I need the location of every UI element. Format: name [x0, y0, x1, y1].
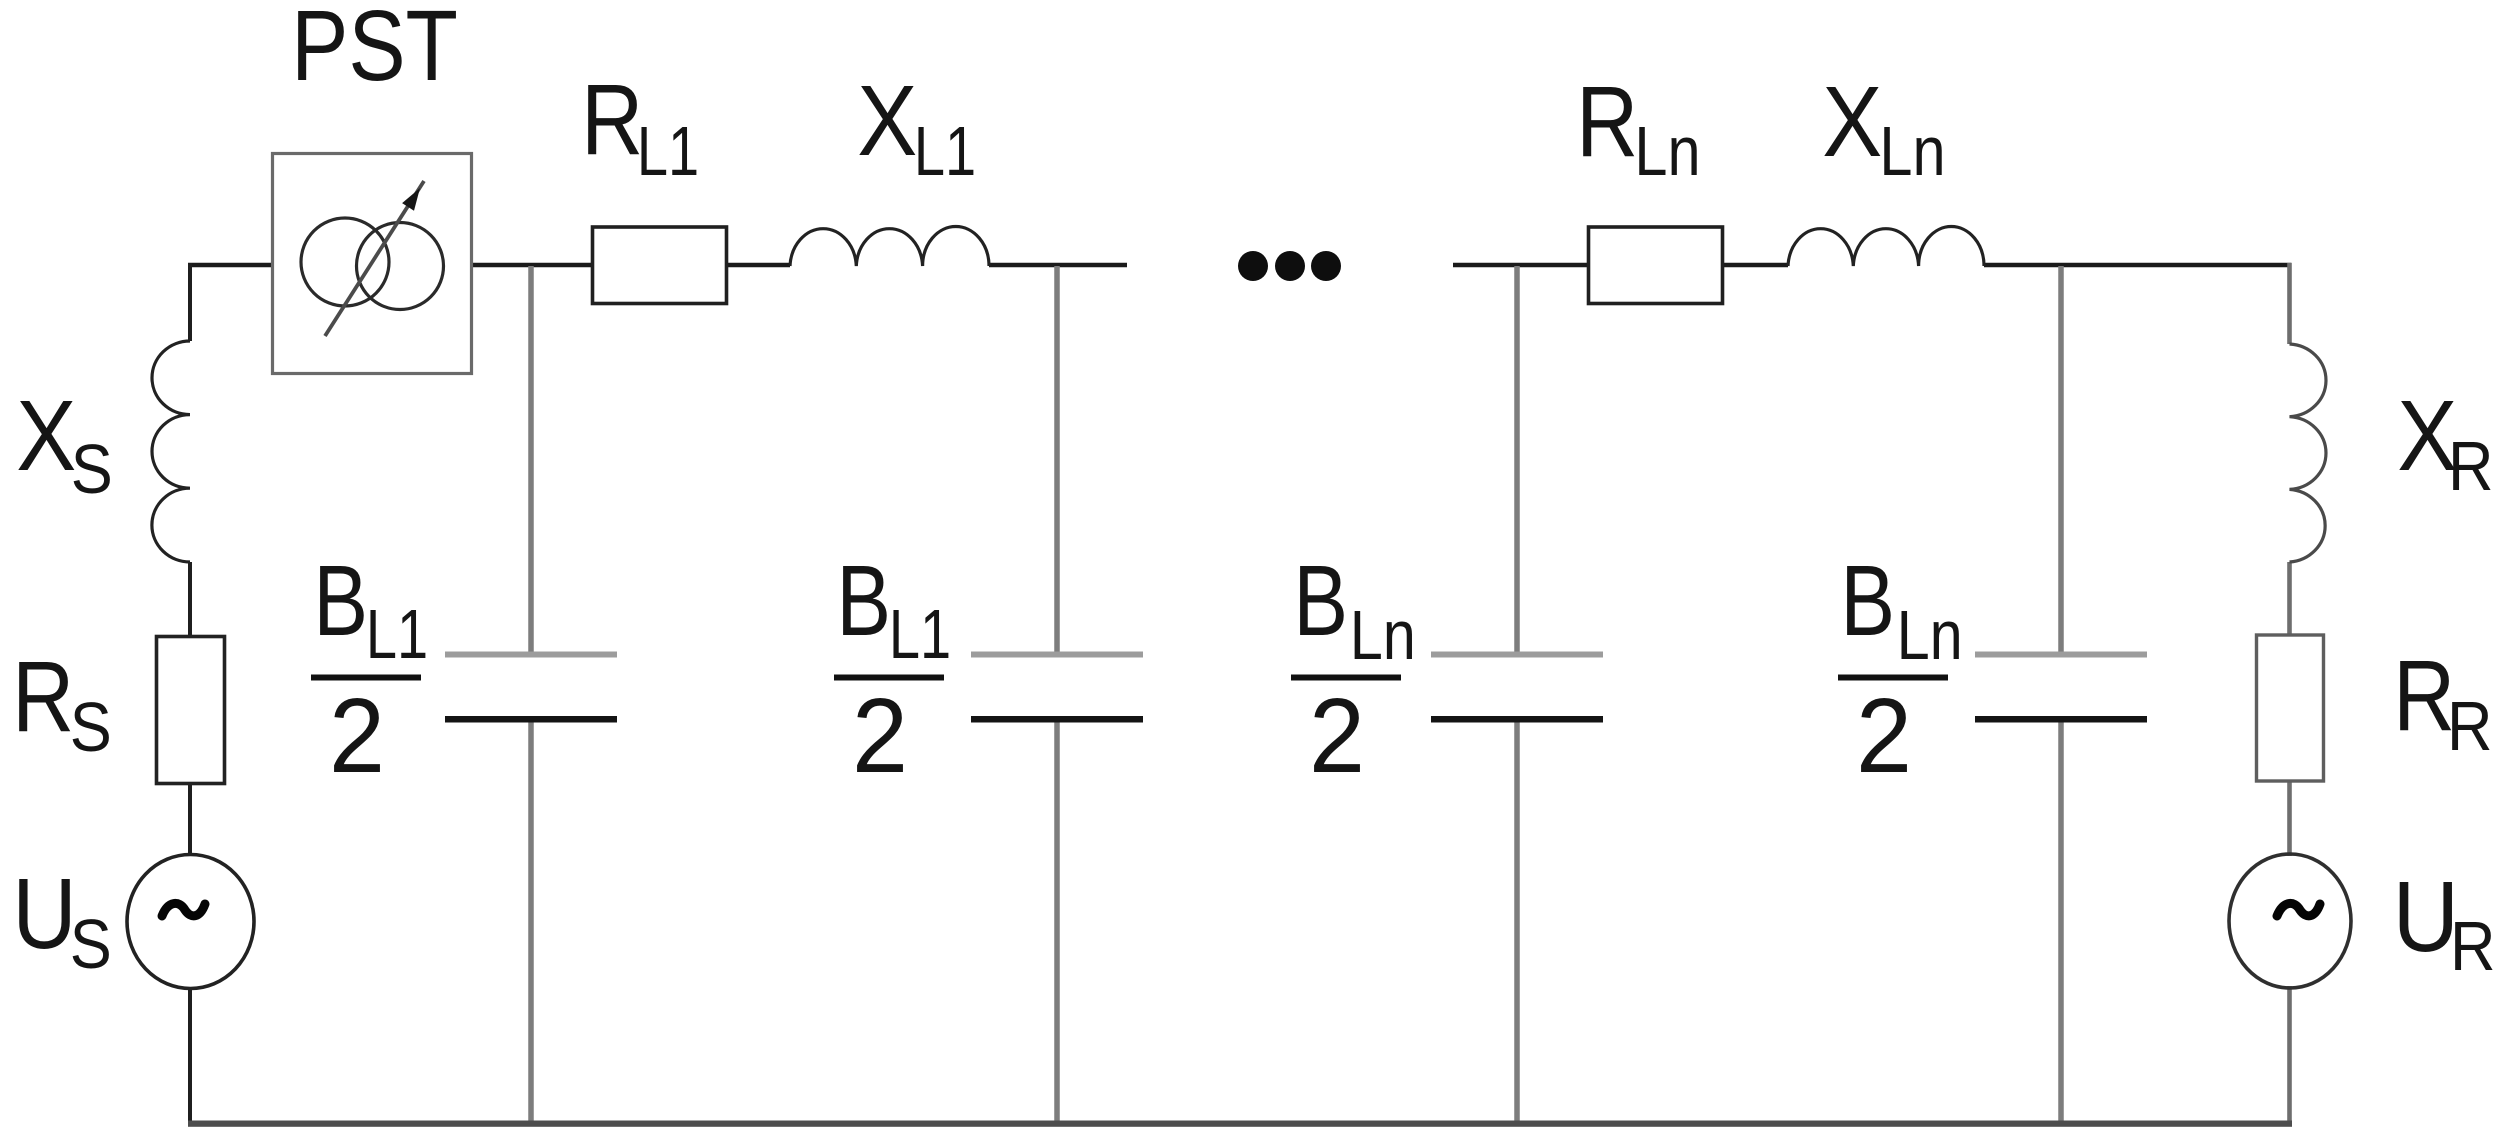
PST transformer box [273, 154, 472, 374]
svg-text:B: B [1293, 545, 1348, 657]
shunt capacitor C1 bottom plate [445, 716, 617, 723]
wire: dots gap to R_Ln [1453, 263, 1589, 268]
wire [2287, 986, 2292, 1124]
shunt capacitor C2 top plate [971, 652, 1143, 658]
label BL1/2 (cap 2) [834, 545, 951, 794]
svg-text:S: S [71, 431, 113, 509]
svg-text:Ln: Ln [1897, 595, 1963, 674]
inductor XL1 (3 arcs) [790, 226, 989, 266]
wire [188, 562, 192, 637]
svg-text:R: R [581, 64, 643, 176]
svg-text:PST: PST [291, 0, 458, 101]
svg-text:U: U [12, 858, 76, 970]
wire top bus segments [188, 263, 2292, 268]
svg-text:L1: L1 [889, 596, 951, 673]
svg-text:R: R [2450, 908, 2495, 986]
wire [188, 263, 192, 341]
svg-text:B: B [836, 545, 891, 657]
svg-text:B: B [313, 545, 368, 657]
shunt capacitor C1 stem lower [528, 723, 534, 1123]
svg-text:X: X [1822, 67, 1882, 178]
shunt capacitor C3 stem lower [1514, 723, 1520, 1123]
label RLn [1576, 66, 1700, 190]
wire [2287, 263, 2292, 344]
shunt capacitor C4 top plate [1975, 652, 2147, 658]
PST circle 1 [301, 218, 389, 306]
label RR [2393, 640, 2492, 766]
shunt capacitor C2 bottom plate [971, 716, 1143, 723]
wire: R_L1 to X_L1 [726, 263, 790, 268]
right receiving branch vertical wires [2287, 263, 2292, 1124]
svg-text:X: X [16, 381, 76, 492]
shunt capacitor C3 stem upper [1514, 266, 1520, 652]
wire: X_Ln to right corner [1984, 263, 2292, 268]
svg-text:2: 2 [852, 676, 908, 795]
svg-text:R: R [2393, 640, 2455, 752]
svg-text:L1: L1 [366, 596, 428, 673]
label BLn/2 (cap 3) [1291, 545, 1416, 794]
label XLn [1822, 67, 1945, 190]
wire: X_L1 to dots gap [989, 263, 1127, 268]
svg-text:L1: L1 [914, 113, 976, 190]
svg-text:X: X [857, 66, 917, 177]
shunt capacitor C2 stem upper [1054, 266, 1060, 652]
svg-text:S: S [70, 689, 112, 767]
wire [2287, 562, 2292, 635]
bottom return bus wire [188, 1121, 2292, 1127]
wire: PST to R_L1 [471, 263, 593, 268]
svg-text:L1: L1 [637, 113, 699, 190]
wire [2287, 781, 2292, 856]
svg-text:2: 2 [1856, 676, 1912, 795]
shunt capacitor C3 bottom plate [1431, 716, 1603, 723]
inductor XS (coil, bulge left) [152, 341, 190, 562]
svg-text:2: 2 [329, 676, 385, 795]
resistor RR [2257, 635, 2324, 781]
svg-text:S: S [70, 906, 112, 984]
svg-text:Ln: Ln [1350, 595, 1416, 674]
label XL1 [857, 66, 976, 191]
wire: left corner to PST [188, 263, 273, 268]
svg-text:Ln: Ln [1634, 111, 1700, 190]
node dots ... (ellipsis) [1238, 251, 1341, 281]
label UR [2393, 861, 2496, 985]
source UR (circle with ~) [2229, 854, 2351, 988]
shunt capacitor C1 top plate [445, 652, 617, 658]
label RS [12, 641, 112, 767]
shunt capacitor C2 stem lower [1054, 723, 1060, 1123]
label BL1/2 (cap 1) [311, 545, 428, 794]
PST arrow [325, 181, 424, 336]
svg-text:2: 2 [1309, 676, 1365, 795]
svg-text:R: R [2447, 688, 2492, 766]
inductor XLn (3 arcs) [1788, 226, 1984, 266]
svg-text:B: B [1840, 545, 1895, 657]
wire [188, 783, 192, 856]
left source branch vertical wires [188, 263, 192, 1124]
source US (circle with ~) [127, 855, 254, 989]
label US [12, 858, 111, 984]
label XS [16, 381, 113, 509]
US tilde [162, 903, 205, 916]
shunt capacitor C4 stem upper [2058, 266, 2064, 652]
wire: R_Ln to X_Ln [1722, 263, 1788, 268]
svg-text:R: R [12, 641, 74, 753]
shunt capacitor C4 bottom plate [1975, 716, 2147, 723]
PST circle 2 [357, 223, 444, 310]
inductor XR (coil, bulge right) [2290, 344, 2326, 562]
svg-text:Ln: Ln [1879, 111, 1945, 190]
resistor RL1 [593, 227, 727, 304]
resistor RLn [1589, 227, 1723, 304]
svg-text:U: U [2393, 861, 2459, 972]
label BLn/2 (cap 4) [1838, 545, 1963, 794]
shunt capacitor C4 stem lower [2058, 723, 2064, 1123]
label XR [2397, 381, 2493, 506]
wire [188, 987, 192, 1124]
resistor RS [157, 637, 225, 784]
shunt capacitor C3 top plate [1431, 652, 1603, 658]
svg-text:R: R [2448, 428, 2493, 506]
label RL1 [581, 64, 699, 191]
svg-text:R: R [1576, 66, 1638, 178]
shunt capacitor C1 stem upper [528, 266, 534, 652]
UR tilde [2277, 903, 2320, 916]
